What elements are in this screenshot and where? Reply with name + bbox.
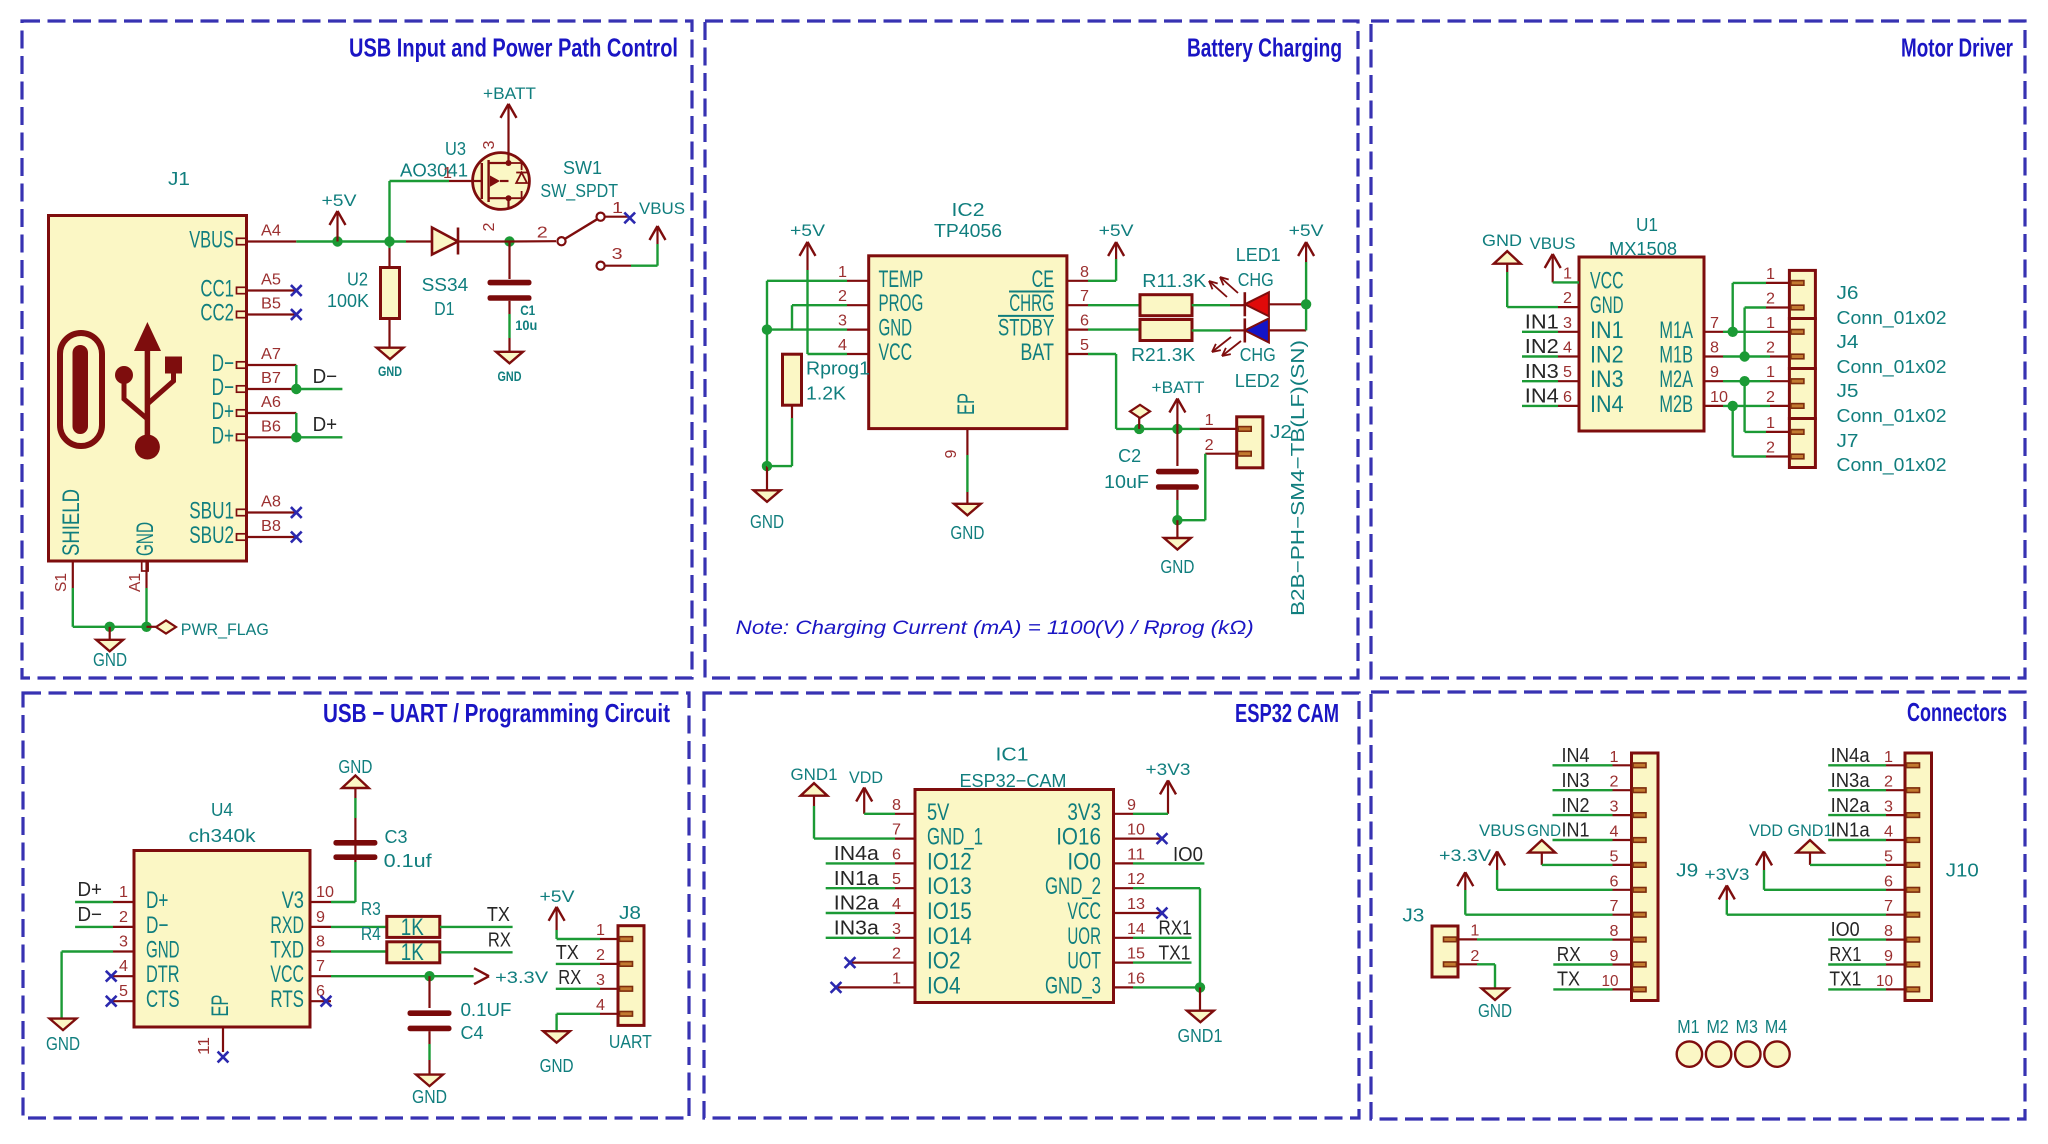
svg-text:1: 1 (443, 165, 452, 182)
svg-text:GND_1: GND_1 (927, 824, 983, 851)
svg-text:IN3a: IN3a (1831, 770, 1871, 792)
svg-text:D+: D+ (212, 422, 234, 449)
svg-text:+3V3: +3V3 (1146, 760, 1191, 779)
svg-text:LED2: LED2 (1235, 370, 1280, 391)
svg-text:8: 8 (1080, 264, 1089, 281)
svg-text:Note: Charging Current (mA) =: Note: Charging Current (mA) = 1100(V) / … (736, 618, 1254, 639)
svg-text:CHG: CHG (1240, 344, 1276, 365)
svg-text:2: 2 (119, 909, 128, 926)
svg-text:7: 7 (316, 958, 325, 975)
svg-text:UART: UART (609, 1031, 652, 1052)
svg-text:ch340k: ch340k (189, 825, 257, 846)
svg-text:SS34: SS34 (422, 274, 469, 295)
svg-text:1: 1 (119, 884, 128, 901)
svg-text:1: 1 (1766, 266, 1775, 283)
svg-text:5V: 5V (927, 799, 949, 826)
svg-text:U2: U2 (347, 269, 368, 290)
svg-text:1: 1 (1766, 364, 1775, 381)
svg-text:11: 11 (1127, 846, 1145, 863)
svg-text:TP4056: TP4056 (934, 220, 1002, 241)
svg-text:J1: J1 (168, 168, 190, 189)
svg-text:14: 14 (1127, 921, 1145, 938)
svg-text:RX1: RX1 (1159, 918, 1192, 940)
svg-text:0.1UF: 0.1UF (461, 999, 512, 1020)
svg-text:UOT: UOT (1067, 948, 1101, 975)
svg-text:1: 1 (1563, 265, 1572, 282)
svg-text:5: 5 (1080, 337, 1089, 354)
svg-text:1: 1 (1766, 315, 1775, 332)
svg-text:R3: R3 (361, 898, 381, 919)
svg-text:2: 2 (1766, 291, 1775, 308)
svg-text:A5: A5 (261, 272, 281, 289)
svg-text:B2B−PH−SM4−TB(LF)(SN): B2B−PH−SM4−TB(LF)(SN) (1287, 340, 1308, 616)
svg-text:M4: M4 (1765, 1016, 1787, 1037)
svg-text:B6: B6 (261, 418, 281, 435)
svg-text:1: 1 (612, 200, 623, 217)
svg-text:2: 2 (1563, 290, 1572, 307)
svg-text:+BATT: +BATT (1152, 378, 1205, 397)
svg-text:9: 9 (1127, 797, 1136, 814)
svg-text:+3V3: +3V3 (1705, 865, 1750, 884)
svg-text:6: 6 (892, 846, 901, 863)
svg-text:GND: GND (1160, 556, 1194, 577)
svg-text:VCC: VCC (879, 339, 913, 366)
svg-text:IN4a: IN4a (834, 843, 880, 865)
svg-text:Conn_01x02: Conn_01x02 (1837, 454, 1947, 476)
svg-text:CHG: CHG (1238, 269, 1274, 290)
svg-text:BAT: BAT (1020, 339, 1054, 366)
svg-text:Conn_01x02: Conn_01x02 (1837, 356, 1947, 378)
svg-text:IN1: IN1 (1525, 312, 1559, 334)
svg-text:IC1: IC1 (996, 744, 1029, 765)
svg-text:ESP32−CAM: ESP32−CAM (960, 770, 1067, 791)
svg-text:J5: J5 (1837, 380, 1859, 401)
svg-text:1: 1 (1766, 415, 1775, 432)
svg-text:TEMP: TEMP (879, 266, 924, 293)
svg-text:Battery Charging: Battery Charging (1187, 33, 1342, 63)
svg-text:GND: GND (950, 522, 984, 543)
svg-text:B8: B8 (261, 518, 281, 535)
svg-text:4: 4 (1610, 824, 1619, 841)
svg-text:11: 11 (196, 1037, 213, 1055)
svg-text:7: 7 (892, 822, 901, 839)
svg-text:+5V: +5V (790, 221, 826, 240)
svg-text:Connectors: Connectors (1907, 697, 2007, 727)
svg-text:IN4a: IN4a (1831, 745, 1871, 767)
svg-text:6: 6 (1610, 873, 1619, 890)
svg-text:GND: GND (146, 937, 180, 964)
svg-text:9: 9 (1884, 948, 1893, 965)
svg-text:GND_3: GND_3 (1045, 972, 1101, 999)
svg-text:VBUS: VBUS (189, 227, 234, 254)
svg-text:+BATT: +BATT (483, 84, 536, 103)
svg-text:EP: EP (953, 393, 980, 415)
svg-text:1.2K: 1.2K (806, 383, 847, 404)
svg-text:D−: D− (212, 374, 234, 401)
svg-text:B7: B7 (261, 370, 281, 387)
svg-text:V3: V3 (282, 887, 304, 914)
svg-text:16: 16 (1127, 970, 1145, 987)
svg-text:D−: D− (313, 366, 338, 388)
svg-text:A4: A4 (261, 223, 281, 240)
svg-text:RTS: RTS (270, 986, 304, 1013)
svg-text:IN2a: IN2a (1831, 795, 1871, 817)
svg-text:9: 9 (943, 449, 960, 458)
svg-text:5: 5 (892, 871, 901, 888)
svg-text:CTS: CTS (146, 986, 180, 1013)
svg-text:IO0: IO0 (1067, 848, 1101, 875)
svg-text:2: 2 (1766, 440, 1775, 457)
svg-text:AO3041: AO3041 (400, 160, 468, 181)
svg-text:GND: GND (1527, 821, 1561, 840)
svg-text:1: 1 (1884, 749, 1893, 766)
svg-text:2: 2 (537, 225, 548, 242)
svg-text:C1: C1 (520, 302, 535, 318)
svg-text:1: 1 (1610, 749, 1619, 766)
svg-text:IN4: IN4 (1562, 745, 1590, 767)
svg-text:IO16: IO16 (1056, 824, 1101, 851)
svg-text:TX: TX (556, 942, 579, 964)
svg-text:+5V: +5V (1099, 221, 1135, 240)
svg-text:IN1: IN1 (1590, 317, 1624, 344)
svg-text:10: 10 (1602, 973, 1619, 990)
svg-text:9: 9 (1710, 364, 1719, 381)
svg-text:A6: A6 (261, 394, 281, 411)
svg-text:3: 3 (1884, 799, 1893, 816)
svg-text:1: 1 (1205, 412, 1214, 429)
svg-text:10: 10 (316, 884, 334, 901)
svg-text:0.1uf: 0.1uf (384, 850, 433, 871)
svg-text:PWR_FLAG: PWR_FLAG (181, 620, 269, 639)
svg-text:2: 2 (1470, 948, 1479, 965)
svg-text:IN3: IN3 (1525, 361, 1559, 383)
svg-text:D+: D+ (78, 879, 103, 901)
svg-text:J3: J3 (1402, 904, 1424, 925)
svg-text:7: 7 (1884, 898, 1893, 915)
svg-text:C4: C4 (461, 1022, 484, 1043)
svg-text:J10: J10 (1946, 860, 1979, 881)
svg-text:IO13: IO13 (927, 873, 972, 900)
svg-text:M1B: M1B (1659, 342, 1693, 369)
svg-text:VCC: VCC (1067, 898, 1101, 925)
svg-text:IO14: IO14 (927, 923, 972, 950)
svg-text:12: 12 (1127, 871, 1145, 888)
svg-text:2: 2 (892, 946, 901, 963)
svg-text:LED1: LED1 (1236, 244, 1281, 265)
svg-text:C2: C2 (1118, 445, 1141, 466)
svg-text:IN1a: IN1a (1831, 820, 1871, 842)
svg-text:S1: S1 (53, 573, 70, 592)
svg-text:A1: A1 (127, 573, 144, 592)
svg-text:3: 3 (119, 934, 128, 951)
svg-text:U1: U1 (1636, 214, 1658, 235)
svg-text:9: 9 (1610, 948, 1619, 965)
svg-text:C3: C3 (385, 826, 408, 847)
svg-text:1: 1 (892, 970, 901, 987)
svg-text:IN1a: IN1a (834, 868, 880, 890)
svg-text:D+: D+ (313, 414, 338, 436)
svg-text:M1A: M1A (1659, 317, 1693, 344)
svg-text:EP: EP (207, 995, 234, 1017)
svg-text:RX: RX (1557, 944, 1581, 966)
svg-text:IO0: IO0 (1173, 844, 1203, 866)
svg-text:IO12: IO12 (927, 848, 972, 875)
svg-text:IN2: IN2 (1562, 795, 1590, 817)
svg-text:4: 4 (892, 896, 901, 913)
svg-text:IN3: IN3 (1590, 366, 1624, 393)
svg-text:5: 5 (1884, 848, 1893, 865)
svg-text:IO4: IO4 (927, 972, 961, 999)
svg-text:J6: J6 (1837, 282, 1859, 303)
svg-text:5: 5 (1610, 848, 1619, 865)
svg-text:IO0: IO0 (1831, 919, 1860, 941)
svg-text:4: 4 (1563, 340, 1572, 357)
svg-text:TX: TX (487, 904, 510, 926)
svg-text:GND: GND (378, 363, 402, 379)
svg-text:IN3a: IN3a (834, 918, 880, 940)
svg-text:IO15: IO15 (927, 898, 972, 925)
svg-text:R11.3K: R11.3K (1142, 270, 1207, 291)
svg-text:D−: D− (212, 350, 234, 377)
svg-text:3: 3 (1610, 799, 1619, 816)
svg-text:+3.3V: +3.3V (495, 968, 549, 987)
svg-text:3: 3 (1563, 315, 1572, 332)
svg-text:2: 2 (1884, 774, 1893, 791)
svg-text:SW_SPDT: SW_SPDT (540, 180, 618, 202)
svg-text:9: 9 (316, 909, 325, 926)
svg-text:3: 3 (612, 246, 623, 263)
svg-text:1: 1 (1470, 923, 1479, 940)
svg-text:8: 8 (1610, 923, 1619, 940)
svg-text:STDBY: STDBY (998, 315, 1054, 342)
svg-text:D1: D1 (434, 298, 454, 319)
svg-text:GND1: GND1 (1178, 1025, 1223, 1046)
svg-text:VDD: VDD (1749, 821, 1783, 840)
svg-text:GND1: GND1 (791, 765, 838, 784)
svg-text:VBUS: VBUS (1479, 821, 1525, 840)
svg-text:8: 8 (892, 797, 901, 814)
svg-text:B5: B5 (261, 296, 281, 313)
svg-text:1: 1 (596, 922, 605, 939)
svg-text:GND: GND (1590, 292, 1624, 319)
svg-text:6: 6 (1080, 313, 1089, 330)
svg-text:7: 7 (1610, 898, 1619, 915)
svg-text:J7: J7 (1837, 430, 1859, 451)
svg-text:4: 4 (119, 958, 128, 975)
svg-text:3V3: 3V3 (1067, 799, 1101, 826)
svg-text:+3.3V: +3.3V (1439, 846, 1492, 865)
svg-text:GND: GND (1482, 231, 1522, 250)
svg-text:RXD: RXD (270, 912, 304, 939)
svg-text:M2B: M2B (1659, 391, 1693, 418)
svg-text:GND: GND (46, 1033, 80, 1054)
svg-text:3: 3 (481, 140, 498, 149)
svg-text:UOR: UOR (1067, 923, 1101, 950)
svg-text:13: 13 (1127, 896, 1145, 913)
svg-text:R4: R4 (361, 923, 381, 944)
svg-text:CE: CE (1032, 266, 1054, 293)
svg-text:10uF: 10uF (1104, 471, 1149, 492)
svg-text:GND: GND (879, 315, 913, 342)
svg-text:IN4: IN4 (1525, 386, 1559, 408)
svg-text:D+: D+ (146, 887, 168, 914)
svg-text:J9: J9 (1676, 860, 1698, 881)
svg-text:2: 2 (481, 222, 498, 231)
svg-text:10: 10 (1710, 389, 1728, 406)
svg-text:IN1: IN1 (1562, 820, 1590, 842)
svg-text:IN2: IN2 (1590, 342, 1624, 369)
svg-text:GND: GND (338, 756, 372, 777)
svg-text:4: 4 (838, 337, 847, 354)
svg-text:IO2: IO2 (927, 948, 961, 975)
svg-text:J8: J8 (619, 902, 641, 923)
svg-text:15: 15 (1127, 946, 1145, 963)
svg-text:3: 3 (892, 921, 901, 938)
svg-text:D+: D+ (212, 398, 234, 425)
svg-text:10: 10 (1127, 822, 1145, 839)
svg-text:SW1: SW1 (563, 157, 602, 178)
svg-text:TXD: TXD (270, 937, 304, 964)
svg-text:CC1: CC1 (200, 276, 234, 303)
svg-text:RX: RX (488, 930, 511, 952)
svg-text:7: 7 (1080, 288, 1089, 305)
svg-text:TX: TX (1557, 969, 1580, 991)
svg-text:4: 4 (596, 997, 605, 1014)
svg-text:8: 8 (1884, 923, 1893, 940)
svg-text:A8: A8 (261, 494, 281, 511)
svg-text:M2A: M2A (1659, 366, 1693, 393)
svg-text:M2: M2 (1706, 1016, 1728, 1037)
svg-text:CHRG: CHRG (1009, 290, 1054, 317)
svg-text:USB Input and Power Path Contr: USB Input and Power Path Control (349, 33, 678, 63)
svg-text:+5V: +5V (540, 887, 576, 906)
svg-text:U3: U3 (445, 138, 466, 159)
svg-text:3: 3 (596, 972, 605, 989)
svg-text:IN2a: IN2a (834, 893, 880, 915)
svg-text:IN3: IN3 (1562, 770, 1590, 792)
svg-text:PROG: PROG (879, 290, 924, 317)
svg-text:U4: U4 (211, 799, 233, 820)
svg-text:5: 5 (1563, 364, 1572, 381)
svg-text:ESP32 CAM: ESP32 CAM (1235, 698, 1339, 728)
svg-text:GND: GND (1478, 1000, 1512, 1021)
svg-text:+5V: +5V (322, 191, 358, 210)
svg-text:1: 1 (838, 264, 847, 281)
svg-text:A7: A7 (261, 346, 281, 363)
svg-text:Motor Driver: Motor Driver (1901, 33, 2013, 63)
svg-text:VCC: VCC (1590, 267, 1624, 294)
svg-text:GND: GND (412, 1086, 447, 1107)
svg-text:Conn_01x02: Conn_01x02 (1837, 307, 1947, 329)
svg-text:GND: GND (498, 368, 522, 384)
svg-text:MX1508: MX1508 (1609, 238, 1677, 259)
svg-text:VDD: VDD (849, 768, 883, 787)
svg-text:R21.3K: R21.3K (1131, 344, 1196, 365)
svg-text:2: 2 (596, 947, 605, 964)
svg-text:8: 8 (1710, 340, 1719, 357)
svg-text:GND1: GND1 (1788, 821, 1833, 840)
svg-text:IN2: IN2 (1525, 336, 1559, 358)
svg-text:IN4: IN4 (1590, 391, 1624, 418)
svg-text:2: 2 (1766, 389, 1775, 406)
svg-text:USB − UART / Programming Circu: USB − UART / Programming Circuit (323, 698, 670, 728)
svg-text:VBUS: VBUS (639, 199, 685, 218)
svg-text:GND: GND (132, 522, 159, 556)
svg-text:8: 8 (316, 934, 325, 951)
svg-text:2: 2 (1205, 437, 1214, 454)
svg-text:M3: M3 (1736, 1016, 1758, 1037)
svg-text:3: 3 (838, 313, 847, 330)
svg-text:D−: D− (146, 912, 168, 939)
svg-text:SHIELD: SHIELD (58, 489, 85, 556)
svg-text:M1: M1 (1677, 1016, 1699, 1037)
svg-text:5: 5 (119, 983, 128, 1000)
svg-text:10: 10 (1876, 973, 1893, 990)
svg-text:SBU2: SBU2 (189, 522, 234, 549)
svg-text:TX1: TX1 (1829, 969, 1861, 991)
svg-text:7: 7 (1710, 315, 1719, 332)
svg-text:+5V: +5V (1289, 221, 1325, 240)
svg-text:RX: RX (558, 967, 581, 989)
svg-text:2: 2 (1766, 340, 1775, 357)
svg-text:Rprog1: Rprog1 (806, 358, 870, 379)
svg-text:VBUS: VBUS (1530, 234, 1576, 253)
svg-text:GND: GND (93, 649, 127, 670)
svg-text:GND: GND (540, 1055, 574, 1076)
svg-text:10u: 10u (515, 317, 537, 333)
svg-text:DTR: DTR (146, 961, 180, 988)
svg-text:GND: GND (750, 511, 784, 532)
svg-text:TX1: TX1 (1159, 943, 1191, 965)
svg-text:GND_2: GND_2 (1045, 873, 1101, 900)
svg-text:1K: 1K (401, 914, 424, 941)
svg-text:2: 2 (838, 288, 847, 305)
svg-text:2: 2 (1610, 774, 1619, 791)
svg-text:6: 6 (1563, 389, 1572, 406)
svg-text:SBU1: SBU1 (189, 498, 234, 525)
svg-text:VCC: VCC (270, 961, 304, 988)
svg-text:CC2: CC2 (200, 300, 234, 327)
svg-text:IC2: IC2 (952, 199, 985, 220)
svg-text:1K: 1K (401, 939, 424, 966)
svg-text:J4: J4 (1837, 331, 1859, 352)
svg-text:Conn_01x02: Conn_01x02 (1837, 405, 1947, 427)
svg-text:6: 6 (1884, 873, 1893, 890)
svg-text:100K: 100K (327, 290, 370, 311)
svg-text:4: 4 (1884, 824, 1893, 841)
svg-text:RX1: RX1 (1829, 944, 1861, 966)
svg-text:D−: D− (78, 904, 103, 926)
